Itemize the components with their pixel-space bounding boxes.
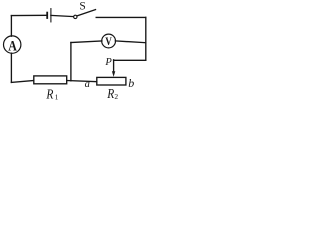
svg-text:b: b [128, 76, 134, 90]
battery cell plate negative (short thick) [46, 13, 48, 18]
svg-text:a: a [85, 79, 90, 90]
ammeter A circle [4, 36, 21, 53]
svg-text:A: A [8, 38, 17, 54]
wire voltmeter drop to R1-R2 node [70, 43, 72, 81]
wire voltmeter right lead [115, 41, 145, 43]
slider arrow P shaft [113, 60, 115, 72]
switch S pivot circle [74, 15, 77, 18]
wire between R1 and R2 [67, 81, 97, 82]
voltmeter V circle [102, 34, 116, 48]
wire switch to top right corner [96, 16, 146, 18]
wire bottom left horizontal [11, 81, 33, 83]
svg-text:1: 1 [55, 92, 59, 101]
wire step to slider [114, 59, 146, 61]
battery cell plate positive (tall thin) [50, 9, 52, 22]
svg-text:R: R [46, 87, 54, 102]
wire right vertical [145, 17, 147, 60]
wire bottom left vertical lower [10, 53, 12, 82]
wire voltmeter left lead [71, 41, 102, 43]
switch S lever [77, 10, 96, 16]
slider arrow P head [112, 71, 115, 77]
wire left vertical upper [10, 16, 12, 37]
wire top left horizontal [11, 14, 46, 16]
svg-text:P: P [104, 57, 112, 68]
resistor R1 box [34, 76, 67, 84]
svg-text:S: S [79, 1, 85, 13]
svg-text:V: V [105, 34, 112, 48]
wire battery to switch pivot [51, 15, 74, 16]
svg-text:2: 2 [114, 92, 118, 101]
resistor R2 box (rheostat) [97, 77, 126, 85]
